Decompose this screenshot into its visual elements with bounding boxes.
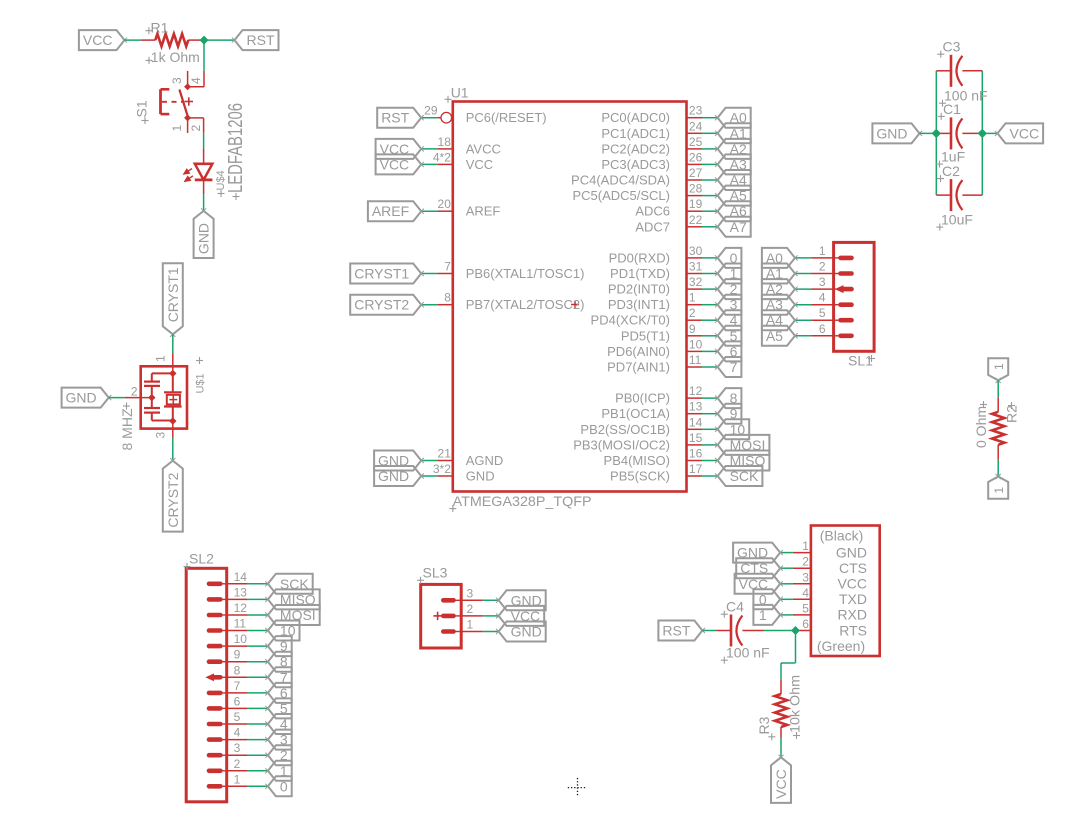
svg-text:13: 13 <box>234 585 248 599</box>
svg-text:5: 5 <box>802 601 809 615</box>
svg-text:3: 3 <box>819 275 826 289</box>
svg-text:A5: A5 <box>766 328 783 344</box>
svg-text:A7: A7 <box>730 219 747 235</box>
svg-text:26: 26 <box>689 150 703 164</box>
svg-text:21: 21 <box>438 447 452 461</box>
svg-text:10k Ohm: 10k Ohm <box>787 675 803 733</box>
svg-text:GND: GND <box>511 624 542 640</box>
svg-text:3: 3 <box>170 77 184 84</box>
svg-text:22: 22 <box>689 213 703 227</box>
svg-text:PD0(RXD): PD0(RXD) <box>609 250 670 265</box>
svg-text:28: 28 <box>689 182 703 196</box>
svg-text:11: 11 <box>234 617 247 631</box>
svg-text:VCC: VCC <box>773 769 789 799</box>
svg-text:23: 23 <box>689 104 703 118</box>
svg-text:6: 6 <box>234 694 241 708</box>
svg-text:C1: C1 <box>943 101 961 117</box>
svg-text:GND: GND <box>378 468 409 484</box>
svg-text:10uF: 10uF <box>941 212 973 228</box>
svg-text:4: 4 <box>234 726 241 740</box>
svg-text:VCC: VCC <box>466 157 493 172</box>
svg-text:SCK: SCK <box>730 468 759 484</box>
svg-text:PC4(ADC4/SDA): PC4(ADC4/SDA) <box>571 173 670 188</box>
svg-text:17: 17 <box>689 462 703 476</box>
svg-text:ATMEGA328P_TQFP: ATMEGA328P_TQFP <box>453 493 592 509</box>
svg-text:3: 3 <box>802 570 809 584</box>
svg-text:14: 14 <box>689 415 703 429</box>
svg-text:GND: GND <box>466 469 495 484</box>
svg-text:8 MHZ: 8 MHZ <box>119 408 135 450</box>
svg-text:RTS: RTS <box>839 622 867 638</box>
svg-text:2: 2 <box>467 602 474 616</box>
svg-text:5: 5 <box>819 306 826 320</box>
svg-text:PC3(ADC3): PC3(ADC3) <box>601 157 670 172</box>
svg-text:14: 14 <box>234 570 248 584</box>
svg-text:0: 0 <box>280 778 288 794</box>
svg-text:PC1(ADC1): PC1(ADC1) <box>601 126 670 141</box>
svg-text:PD5(T1): PD5(T1) <box>621 328 670 343</box>
svg-text:19: 19 <box>689 197 703 211</box>
svg-text:1: 1 <box>689 291 696 305</box>
svg-text:U$1: U$1 <box>194 373 206 393</box>
svg-text:TXD: TXD <box>839 591 867 607</box>
svg-text:18: 18 <box>438 135 452 149</box>
svg-text:GND: GND <box>196 223 212 254</box>
svg-text:27: 27 <box>689 166 703 180</box>
svg-text:PB0(ICP): PB0(ICP) <box>615 391 670 406</box>
svg-text:RST: RST <box>662 623 690 639</box>
svg-text:6: 6 <box>819 322 826 336</box>
svg-text:PB4(MISO): PB4(MISO) <box>604 453 670 468</box>
svg-text:PB5(SCK): PB5(SCK) <box>610 469 670 484</box>
svg-text:24: 24 <box>689 119 703 133</box>
svg-text:6: 6 <box>802 617 809 631</box>
svg-text:U1: U1 <box>451 85 469 101</box>
svg-text:4: 4 <box>819 291 826 305</box>
svg-text:PD1(TXD): PD1(TXD) <box>610 266 670 281</box>
svg-text:1: 1 <box>819 244 826 258</box>
svg-text:PD2(INT0): PD2(INT0) <box>608 282 670 297</box>
svg-text:30: 30 <box>689 244 703 258</box>
svg-text:GND: GND <box>66 390 97 406</box>
svg-text:PC6(/RESET): PC6(/RESET) <box>466 110 547 125</box>
svg-text:100 nF: 100 nF <box>726 645 770 661</box>
svg-text:PB3(MOSI/OC2): PB3(MOSI/OC2) <box>573 437 670 452</box>
svg-text:VCC: VCC <box>83 32 113 48</box>
svg-text:10: 10 <box>234 632 248 646</box>
svg-text:VCC: VCC <box>1010 125 1040 141</box>
svg-text:4: 4 <box>189 77 203 84</box>
svg-text:20: 20 <box>438 197 452 211</box>
svg-text:1: 1 <box>154 355 168 362</box>
svg-text:LEDFAB1206: LEDFAB1206 <box>225 103 247 193</box>
svg-text:1: 1 <box>992 487 1006 494</box>
svg-text:11: 11 <box>689 353 702 367</box>
svg-text:1: 1 <box>170 125 184 132</box>
svg-text:PD3(INT1): PD3(INT1) <box>608 297 670 312</box>
svg-text:PB1(OC1A): PB1(OC1A) <box>601 406 670 421</box>
svg-text:S1: S1 <box>134 100 150 117</box>
svg-text:AGND: AGND <box>466 453 504 468</box>
svg-text:31: 31 <box>689 260 703 274</box>
svg-text:4*2: 4*2 <box>433 150 451 164</box>
svg-text:2: 2 <box>234 757 241 771</box>
svg-text:16: 16 <box>689 447 703 461</box>
svg-text:CRYST1: CRYST1 <box>354 266 409 282</box>
svg-text:8: 8 <box>234 663 241 677</box>
svg-text:CRYST2: CRYST2 <box>165 472 181 527</box>
svg-text:CRYST1: CRYST1 <box>165 267 181 322</box>
svg-text:SL3: SL3 <box>423 565 448 581</box>
svg-text:7: 7 <box>234 679 241 693</box>
svg-text:2: 2 <box>189 125 203 132</box>
svg-text:1: 1 <box>759 607 767 623</box>
svg-text:AREF: AREF <box>466 204 501 219</box>
svg-text:2: 2 <box>689 306 696 320</box>
svg-text:C2: C2 <box>942 163 960 179</box>
svg-text:15: 15 <box>689 431 703 445</box>
svg-text:1k Ohm: 1k Ohm <box>151 49 200 65</box>
svg-text:R1: R1 <box>151 19 169 35</box>
svg-text:4: 4 <box>802 586 809 600</box>
svg-text:2: 2 <box>802 555 809 569</box>
svg-text:2: 2 <box>819 260 826 274</box>
svg-text:(Black): (Black) <box>820 528 864 544</box>
svg-text:(Green): (Green) <box>817 638 865 654</box>
svg-text:RST: RST <box>247 32 275 48</box>
svg-text:5: 5 <box>234 710 241 724</box>
svg-text:7: 7 <box>730 359 738 375</box>
svg-text:SL1: SL1 <box>848 353 873 369</box>
svg-text:AREF: AREF <box>372 203 409 219</box>
svg-text:32: 32 <box>689 275 703 289</box>
svg-text:PC5(ADC5/SCL): PC5(ADC5/SCL) <box>572 188 670 203</box>
svg-text:GND: GND <box>876 125 907 141</box>
svg-text:CTS: CTS <box>839 560 867 576</box>
svg-text:SL2: SL2 <box>189 551 214 567</box>
svg-text:ADC7: ADC7 <box>635 219 670 234</box>
svg-text:7: 7 <box>444 260 451 274</box>
svg-text:RST: RST <box>381 110 409 126</box>
svg-text:PB2(SS/OC1B): PB2(SS/OC1B) <box>580 422 670 437</box>
svg-text:3: 3 <box>467 586 474 600</box>
svg-text:12: 12 <box>689 384 703 398</box>
svg-text:29: 29 <box>424 104 438 118</box>
svg-text:PB6(XTAL1/TOSC1): PB6(XTAL1/TOSC1) <box>466 266 585 281</box>
svg-text:PC2(ADC2): PC2(ADC2) <box>601 141 670 156</box>
svg-text:10: 10 <box>689 337 703 351</box>
svg-text:VCC: VCC <box>837 576 867 592</box>
svg-text:25: 25 <box>689 135 703 149</box>
svg-text:RXD: RXD <box>837 607 867 623</box>
svg-text:C4: C4 <box>726 599 744 615</box>
svg-text:R3: R3 <box>756 716 772 734</box>
svg-text:1: 1 <box>992 363 1006 370</box>
svg-text:C3: C3 <box>943 39 961 55</box>
svg-text:AVCC: AVCC <box>466 141 501 156</box>
svg-text:8: 8 <box>444 291 451 305</box>
svg-text:3: 3 <box>234 741 241 755</box>
svg-text:1: 1 <box>467 618 474 632</box>
svg-text:1: 1 <box>802 539 809 553</box>
svg-text:PB7(XTAL2/TOSC2): PB7(XTAL2/TOSC2) <box>466 297 585 312</box>
svg-text:PD6(AIN0): PD6(AIN0) <box>607 344 670 359</box>
svg-text:13: 13 <box>689 400 703 414</box>
svg-text:9: 9 <box>234 648 241 662</box>
svg-text:12: 12 <box>234 601 248 615</box>
svg-text:3: 3 <box>154 432 168 439</box>
svg-text:PD4(XCK/T0): PD4(XCK/T0) <box>591 313 670 328</box>
svg-text:0 Ohm: 0 Ohm <box>973 406 989 448</box>
svg-text:ADC6: ADC6 <box>635 204 670 219</box>
svg-text:PD7(AIN1): PD7(AIN1) <box>607 360 670 375</box>
svg-text:1: 1 <box>234 772 241 786</box>
svg-text:9: 9 <box>689 322 696 336</box>
svg-text:GND: GND <box>836 544 867 560</box>
svg-text:2: 2 <box>131 385 138 399</box>
svg-text:3*2: 3*2 <box>433 462 451 476</box>
svg-text:VCC: VCC <box>380 156 410 172</box>
svg-text:CRYST2: CRYST2 <box>354 297 409 313</box>
svg-text:PC0(ADC0): PC0(ADC0) <box>601 110 670 125</box>
